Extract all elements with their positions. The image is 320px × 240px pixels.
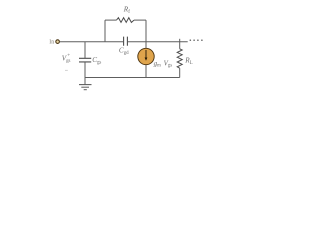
wire current source stem upper	[145, 42, 147, 49]
wire Rf loop right vertical	[145, 20, 147, 42]
capacitor Cgd plates	[124, 37, 128, 46]
svg-text:+: +	[67, 52, 70, 58]
resistor Rf	[117, 18, 135, 23]
terminal In	[56, 40, 60, 44]
wire Rf loop left vertical	[104, 20, 106, 42]
wire Cgs branch lower	[84, 62, 86, 77]
svg-text:Cgs: Cgs	[92, 56, 101, 65]
wire main output segment (Cgd right plate to right end)	[128, 41, 188, 43]
wire Rf loop top left	[105, 19, 117, 21]
svg-text:In: In	[49, 40, 54, 46]
ground bar 2	[81, 86, 89, 88]
svg-text:gmVgs: gmVgs	[154, 60, 173, 68]
ground bar 1	[79, 84, 92, 86]
capacitor Cgs plates	[79, 58, 91, 62]
current source gmVgs circle	[138, 48, 154, 64]
wire RL branch lower lead	[179, 68, 181, 77]
wire RL branch upper lead	[179, 42, 181, 49]
svg-text:Cgd: Cgd	[119, 47, 129, 56]
wire bottom rail	[85, 77, 180, 79]
resistor RL	[177, 49, 182, 68]
wire Cgs branch upper	[84, 42, 86, 58]
svg-text:Rf: Rf	[123, 6, 130, 15]
ground stem	[84, 78, 86, 85]
current source arrow	[145, 50, 147, 58]
wire Rf loop top right	[134, 19, 146, 21]
svg-text:RL: RL	[184, 57, 192, 66]
svg-text:−: −	[65, 68, 69, 74]
wire current source stem lower	[145, 65, 147, 78]
wire main input segment (In to Cgd left plate)	[60, 41, 123, 43]
ground bar 3	[84, 89, 87, 91]
node tick above RL junction	[179, 39, 181, 42]
continuation dots	[190, 39, 203, 41]
